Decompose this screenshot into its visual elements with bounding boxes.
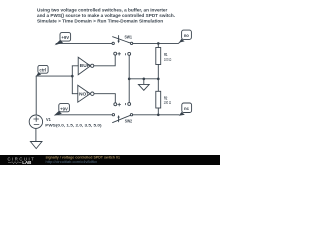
SW2 control pin -	[125, 103, 131, 106]
wire bottom rail from +9V to SW2	[55, 114, 112, 116]
wire BUF input	[72, 65, 78, 67]
svg-text:BUF: BUF	[80, 63, 90, 68]
net flag no (top right)	[179, 30, 191, 42]
svg-text:ctrl: ctrl	[39, 67, 46, 72]
switch SW1	[112, 36, 133, 45]
SW1 control pin +	[114, 52, 121, 55]
ground (V1)	[30, 142, 42, 149]
wire ctrl horizontal	[36, 75, 72, 77]
wire NOT input	[72, 93, 78, 95]
inverter gate NOT	[78, 85, 94, 102]
junction ground tap	[143, 78, 146, 81]
svg-text:SW2: SW2	[125, 118, 133, 123]
wire mid rail	[129, 78, 158, 80]
junction mid rail left	[128, 78, 131, 81]
svg-text:and a PWS() source to make a v: and a PWS() source to make a voltage con…	[37, 13, 175, 18]
SW2 control pin +	[114, 103, 121, 106]
svg-text:Simulate > Time Domain > Run T: Simulate > Time Domain > Run Time-Domain…	[37, 19, 163, 24]
net flag +9V (top left)	[55, 33, 71, 46]
resistor R2	[156, 79, 161, 115]
wire NOT output to SW2 + control	[94, 94, 115, 103]
svg-text:100 Ω: 100 Ω	[164, 57, 171, 62]
junction at R1 top	[157, 42, 160, 45]
resistor R1	[156, 43, 161, 78]
svg-text:V1: V1	[46, 117, 51, 122]
svg-text:SW1: SW1	[125, 34, 133, 39]
buffer gate BUF	[78, 57, 94, 75]
wire SW1 to R1 junction and no flag	[133, 41, 181, 44]
svg-text:+9V: +9V	[60, 106, 69, 111]
junction mid rail right	[157, 78, 160, 81]
svg-text:http://circuitlab.com/c4v8dfkx: http://circuitlab.com/c4v8dfkx	[46, 160, 98, 164]
switch SW2	[112, 114, 132, 123]
wire V1 top to ctrl	[35, 76, 37, 115]
wire SW1 + control down to buffer output	[94, 55, 115, 66]
junction at R2 bottom	[157, 114, 160, 117]
description text	[37, 7, 175, 23]
voltage source V1	[29, 115, 42, 128]
svg-text:nc: nc	[184, 106, 189, 111]
svg-text:NOT: NOT	[79, 91, 90, 96]
wire ctrl vertical (BUF in to NOT in)	[71, 66, 73, 94]
net flag nc (bottom right)	[179, 103, 192, 116]
wire V1 bottom to ground	[35, 128, 37, 141]
svg-text:100 Ω: 100 Ω	[164, 100, 171, 105]
net flag ctrl	[36, 65, 48, 76]
svg-text:no: no	[184, 33, 189, 38]
wire SW1 - control down to SW2 - control	[128, 55, 130, 102]
net flag +9V (bottom)	[54, 104, 70, 116]
footer bar	[0, 155, 220, 165]
svg-text:LAB: LAB	[22, 160, 31, 165]
CircuitLab logo	[8, 156, 36, 165]
svg-text:PWS(0.0, 1.5, 2.0, 3.5, 5.0): PWS(0.0, 1.5, 2.0, 3.5, 5.0)	[45, 122, 102, 127]
wire SW2 to R2 junction and nc flag	[133, 114, 179, 116]
svg-text:Using two voltage controlled s: Using two voltage controlled switches, a…	[37, 7, 168, 12]
SW1 control pin -	[125, 52, 131, 55]
junction ctrl	[71, 75, 74, 78]
svg-text:+9V: +9V	[61, 35, 70, 40]
wire top rail from +9V to SW1	[56, 42, 112, 44]
ground (mid)	[138, 79, 149, 90]
